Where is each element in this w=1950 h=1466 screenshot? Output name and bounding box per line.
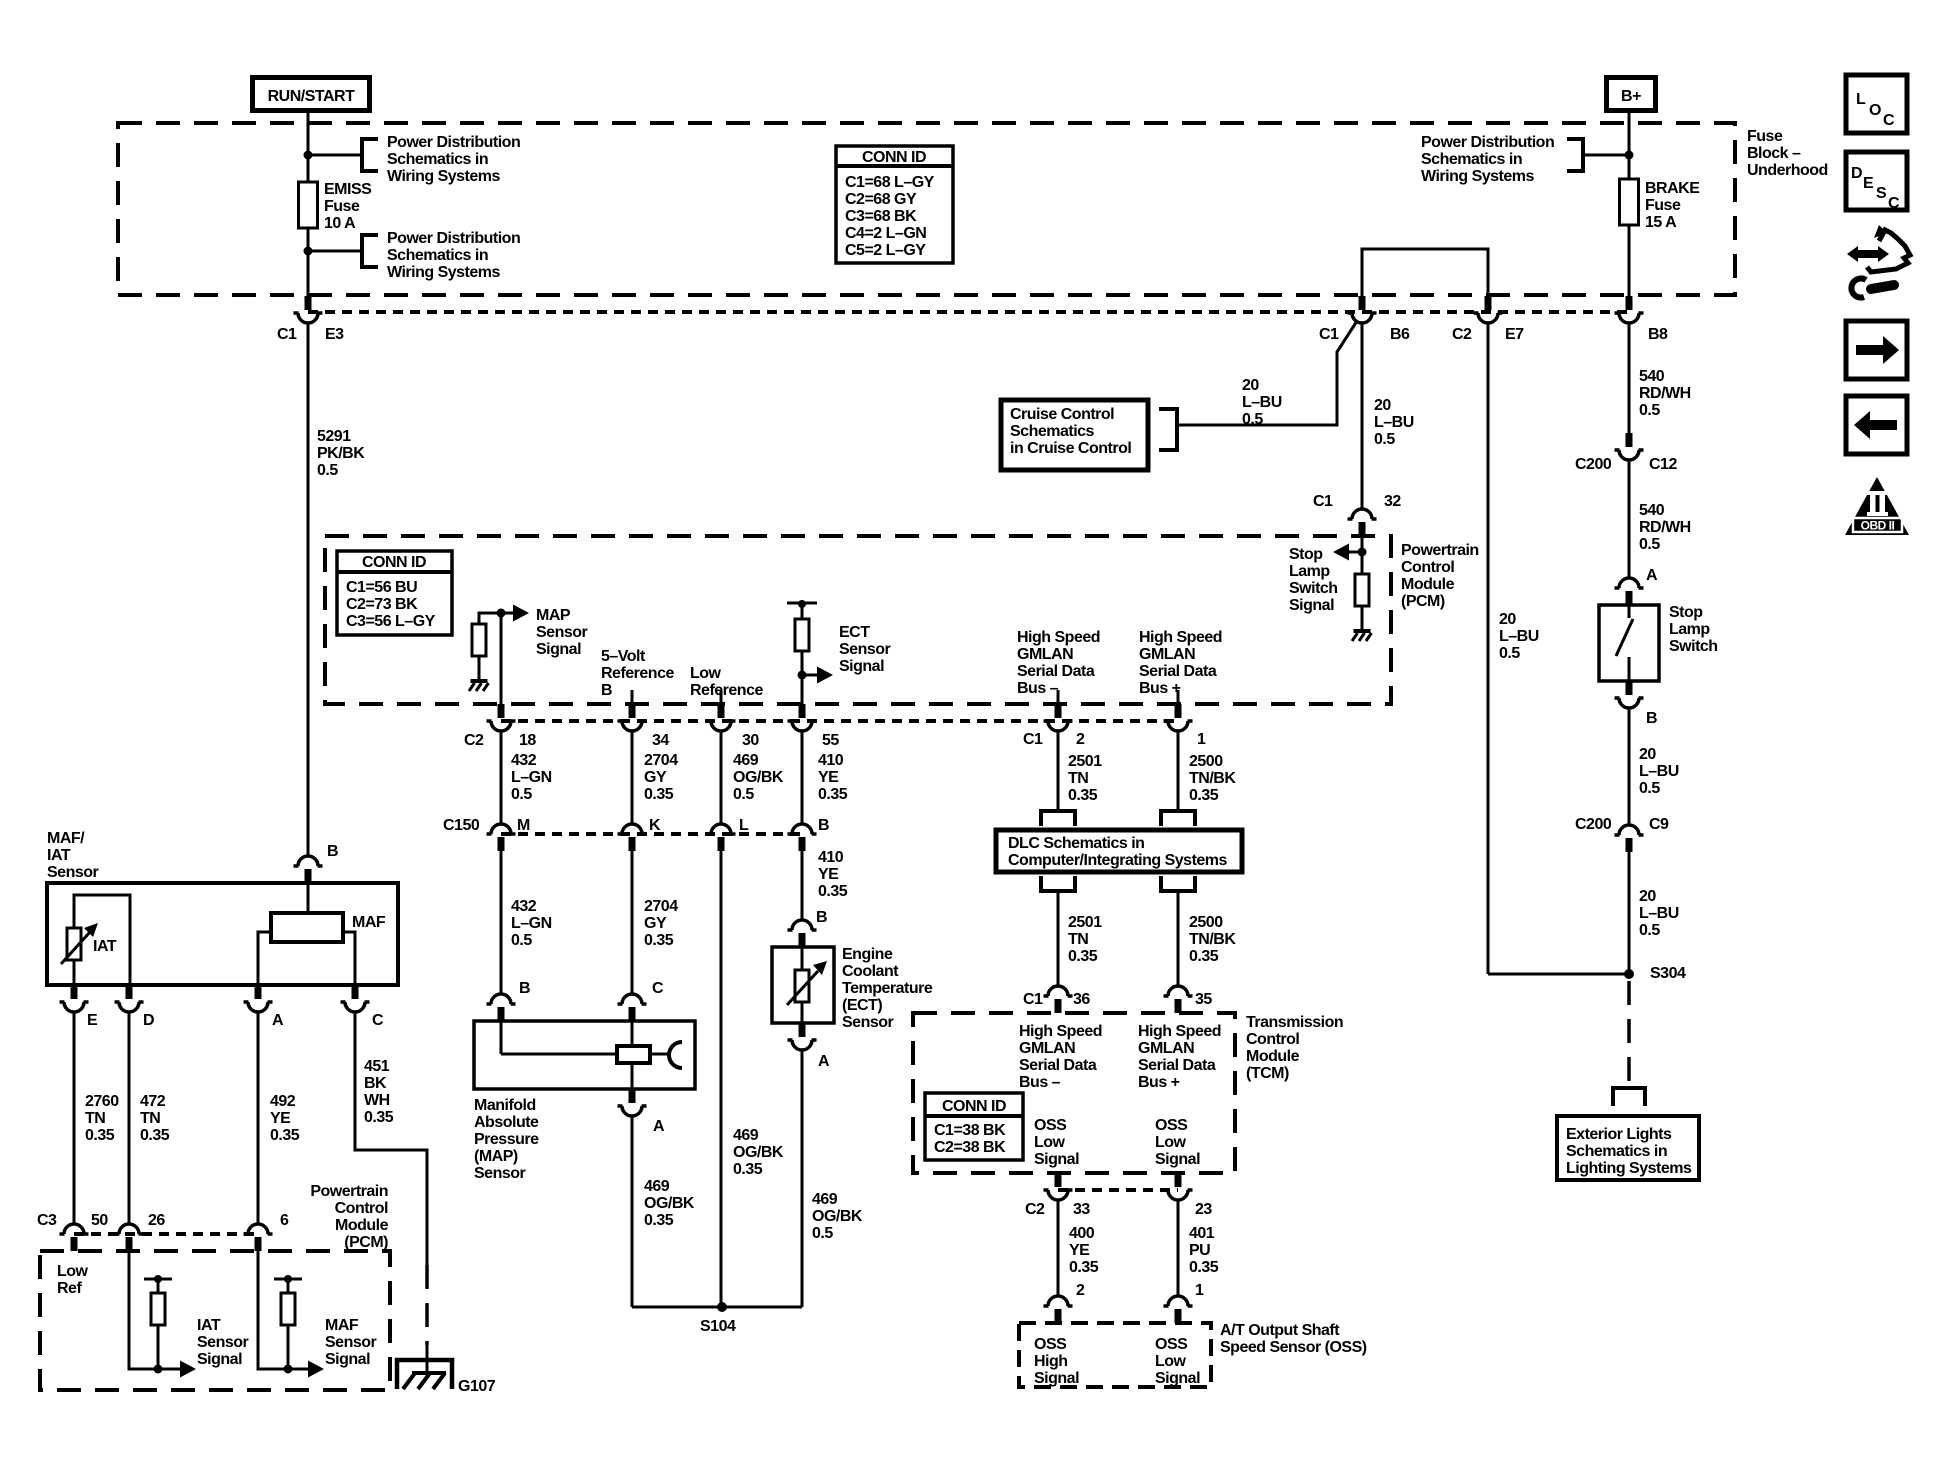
svg-text:OBD II: OBD II (1861, 519, 1895, 533)
wire 410 upper (801, 731, 804, 824)
svg-text:C3: C3 (37, 1212, 57, 1229)
svg-text:C2: C2 (1452, 326, 1472, 343)
MAP transducer arc (669, 1042, 682, 1068)
DLC schematics box (996, 830, 1242, 872)
svg-text:1: 1 (1197, 731, 1206, 748)
svg-text:S104: S104 (700, 1318, 736, 1335)
node junction BRAKE (1625, 151, 1634, 160)
svg-text:D: D (143, 1012, 154, 1029)
wire pin 26 to IAT signal node (129, 1251, 158, 1369)
svg-text:B6: B6 (1390, 326, 1410, 343)
connector B MAP (487, 994, 516, 1021)
wire RUN/START down through fuse block (307, 113, 310, 296)
svg-text:C: C (372, 1012, 384, 1029)
svg-text:C2: C2 (1025, 1201, 1045, 1218)
connector C2 33 (1044, 1173, 1073, 1200)
wire 2500 upper (1177, 731, 1180, 811)
wire 2704 upper (631, 731, 634, 824)
connector 2 OSS (1044, 1296, 1073, 1323)
svg-text:30: 30 (742, 732, 759, 749)
wire 432 upper (500, 731, 503, 824)
ECT sensor signal pullup (787, 602, 817, 605)
PCM center dashed box (325, 536, 1391, 704)
connector C3 50 (60, 1224, 89, 1251)
svg-text:O: O (1869, 102, 1881, 119)
fuse BRAKE 15 A (1620, 179, 1639, 225)
bracket DLC bottom left (1041, 876, 1075, 891)
svg-text:S: S (1876, 185, 1887, 202)
svg-text:C200: C200 (1575, 456, 1612, 473)
svg-text:C1: C1 (1023, 731, 1043, 748)
cruise control box (1001, 400, 1148, 470)
svg-text:E7: E7 (1505, 326, 1524, 343)
connector C1 B6 (1348, 296, 1377, 323)
ECT thermistor (801, 947, 804, 970)
connector 23 (1164, 1173, 1193, 1200)
svg-text:CONN ID: CONN ID (862, 149, 926, 166)
connector pin E (60, 985, 89, 1012)
connector A ECT (788, 1023, 817, 1050)
svg-text:S304: S304 (1650, 965, 1686, 982)
svg-text:C1: C1 (1319, 326, 1339, 343)
svg-text:G107: G107 (458, 1378, 496, 1395)
wire GMLAN minus stub PCM (1057, 690, 1060, 704)
wire branch to power distribution bracket 2 (308, 250, 362, 253)
svg-text:A: A (1646, 567, 1658, 584)
svg-text:C2: C2 (464, 732, 484, 749)
arrow MAP sensor signal (501, 612, 513, 615)
svg-text:B: B (816, 909, 827, 926)
wire 20 L-BU stop lamp to C200 (1628, 708, 1631, 825)
wire 540 RD/WH upper (1628, 323, 1631, 433)
TCM dashed box (913, 1013, 1235, 1173)
connector B MAF sensor (294, 856, 323, 883)
bracket power distribution 1 (362, 137, 378, 173)
svg-text:C12: C12 (1649, 456, 1677, 473)
connector B ECT (788, 920, 817, 947)
svg-text:M: M (517, 817, 530, 834)
ground G107 (397, 1360, 452, 1389)
terminal RUN/START (253, 78, 370, 111)
bracket DLC bottom right (1161, 876, 1195, 891)
dotted connector row line C3 (74, 1232, 258, 1236)
wire 5-volt reference pin 34 stub (631, 690, 634, 704)
bracket DLC top left (1041, 811, 1075, 826)
svg-text:C9: C9 (1649, 816, 1669, 833)
IAT sensor signal pullup (144, 1278, 172, 1281)
connector A MAP (618, 1089, 647, 1116)
wire 5291 PK/BK E3 to MAF sensor (307, 323, 310, 856)
wire E7 20 L-BU long (1487, 323, 1490, 974)
svg-text:CONN ID: CONN ID (942, 1098, 1006, 1115)
icon vehicle double arrow wrench (1847, 246, 1889, 262)
wire 410 lower (801, 851, 804, 920)
arrow ECT sensor signal (802, 674, 817, 677)
connector B C150 (788, 824, 817, 851)
dotted connector row line C2 TCM (1058, 1188, 1178, 1192)
MAP sensor signal pulldown resistor (479, 613, 501, 624)
dotted connector row line C150 (501, 832, 802, 836)
wire 432 lower (500, 851, 503, 994)
svg-text:B: B (327, 843, 338, 860)
wire pin 6 to MAF signal node (258, 1251, 288, 1369)
svg-text:50: 50 (91, 1212, 108, 1229)
dashed wire S304 to exterior lights (1627, 981, 1631, 1084)
MAF element legs (258, 932, 355, 985)
svg-text:C1=38 BKC2=38 BK: C1=38 BKC2=38 BK (934, 1122, 1006, 1156)
connector 55 (788, 704, 817, 731)
MAF/IAT sensor box (47, 883, 398, 985)
wire 492 YE (257, 1012, 260, 1224)
stop lamp switch box (1599, 605, 1659, 681)
bracket cruise control (1159, 407, 1177, 452)
OSS sensor dashed box (1019, 1323, 1211, 1387)
MAP sensor box (474, 1021, 695, 1089)
switch blade stop lamp (1616, 605, 1633, 681)
bracket exterior lights (1613, 1088, 1645, 1106)
connector 35 (1164, 986, 1193, 1013)
svg-text:55: 55 (822, 732, 839, 749)
dashed wire segment to G107 (425, 1265, 429, 1345)
svg-text:2: 2 (1076, 1282, 1085, 1299)
connector C200 C12 (1615, 433, 1644, 460)
connector pin A (244, 985, 273, 1012)
svg-text:B: B (818, 817, 829, 834)
wire 2500 lower (1177, 891, 1180, 986)
wire 400 YE (1057, 1200, 1060, 1296)
svg-text:C: C (652, 980, 664, 997)
svg-text:C1: C1 (277, 326, 297, 343)
icon LOC box (1846, 75, 1907, 133)
connector pin C (341, 985, 370, 1012)
MAF sensor signal pullup (274, 1278, 302, 1281)
svg-text:E3: E3 (325, 326, 344, 343)
connector 30 (707, 704, 736, 731)
wire cruise control branch (1178, 321, 1357, 425)
fuse EMISS 10 A (299, 182, 318, 228)
svg-text:35: 35 (1195, 991, 1212, 1008)
svg-text:K: K (649, 817, 661, 834)
node IAT signal junction (154, 1365, 163, 1374)
splice S304 (1624, 969, 1634, 979)
svg-text:18: 18 (519, 732, 536, 749)
arrow IAT sensor signal (158, 1368, 180, 1371)
connector 1 OSS (1164, 1296, 1193, 1323)
wire 451 BK/WH to G107 (355, 1012, 427, 1265)
icon arrow left box (1846, 396, 1907, 454)
svg-text:32: 32 (1384, 493, 1401, 510)
svg-text:E: E (1863, 175, 1874, 192)
connector C MAP (618, 994, 647, 1021)
conn id table TCM (925, 1093, 1023, 1160)
connector K (618, 824, 647, 851)
wire 540 RD/WH lower (1628, 460, 1631, 578)
connector 26 (115, 1224, 144, 1251)
wire B into MAF element (307, 883, 310, 913)
connector C2 E7 (1474, 296, 1503, 323)
stop lamp switch signal branch (1361, 536, 1364, 574)
bracket DLC top right (1161, 811, 1195, 826)
dotted connector row line C2/C1 (501, 719, 1178, 723)
MAF element box (271, 913, 343, 942)
connector C200 C9 (1615, 825, 1644, 852)
wire 2704 lower (631, 851, 634, 994)
terminal B+ (1607, 78, 1656, 111)
svg-text:6: 6 (280, 1212, 289, 1229)
IAT thermistor network (74, 895, 130, 985)
wire MAP signal to pin 18 (500, 613, 503, 704)
svg-text:C1: C1 (1023, 991, 1043, 1008)
connector C1 36 (1044, 986, 1073, 1013)
svg-text:C150: C150 (443, 817, 480, 834)
svg-text:26: 26 (148, 1212, 165, 1229)
svg-text:IAT: IAT (93, 938, 117, 955)
svg-text:B: B (519, 980, 530, 997)
svg-text:E: E (87, 1012, 98, 1029)
node ECT signal junction (798, 671, 807, 680)
connector C2 18 (487, 704, 516, 731)
connector 6 (244, 1224, 273, 1251)
svg-text:23: 23 (1195, 1201, 1212, 1218)
connector C150 M (487, 824, 516, 851)
svg-text:A: A (818, 1053, 830, 1070)
splice S104 (632, 1306, 802, 1309)
wire ECT A to S104 (801, 1050, 804, 1307)
svg-text:B: B (1646, 710, 1657, 727)
connector C1 2 (1044, 704, 1073, 731)
wire 469 low reference to S104 (720, 851, 723, 1307)
connector C1 32 (1348, 509, 1377, 536)
wire 20 L-BU to S304 (1628, 852, 1631, 974)
wire B6 down to PCM C1 32 (1361, 323, 1364, 509)
arrow MAF sensor signal (288, 1368, 308, 1371)
wire low reference pin 30 stub (720, 690, 723, 704)
icon DESC box (1846, 152, 1907, 210)
svg-text:L: L (1856, 91, 1866, 108)
wire 2501 upper (1057, 731, 1060, 811)
connector C1 E3 (294, 296, 323, 323)
svg-text:36: 36 (1073, 991, 1090, 1008)
fuse block underhood dashed box (118, 123, 1735, 295)
connector L (707, 824, 736, 851)
wire branch to power distribution bracket 3 (1583, 154, 1629, 157)
ground stop lamp internal (1352, 631, 1372, 641)
wire 469 upper (720, 731, 723, 824)
wire 2760 TN (73, 1012, 76, 1224)
svg-text:C: C (1888, 195, 1900, 212)
svg-text:2: 2 (1076, 731, 1085, 748)
exterior lights box (1557, 1116, 1699, 1180)
svg-text:C: C (1883, 112, 1895, 129)
ground MAP internal (469, 681, 489, 691)
svg-text:1: 1 (1195, 1282, 1204, 1299)
wire 472 TN (128, 1012, 131, 1224)
svg-text:CONN ID: CONN ID (362, 554, 426, 571)
conn id table top (836, 146, 953, 263)
wire B+ down through fuse block (1628, 113, 1631, 296)
IAT variable arrow (61, 932, 90, 964)
icon arrow right box (1846, 321, 1907, 379)
svg-text:A: A (653, 1118, 665, 1135)
resistor stop lamp signal (1355, 574, 1369, 606)
svg-text:C1: C1 (1313, 493, 1333, 510)
PCM lower dashed box (40, 1251, 390, 1390)
icon OBD II triangle (1845, 477, 1909, 535)
node junction lower EMISS (304, 247, 313, 256)
connector B8 (1615, 296, 1644, 323)
bracket power distribution 3 (1567, 137, 1583, 173)
wire 2501 lower (1057, 891, 1060, 986)
connector 34 (618, 704, 647, 731)
wire 401 PU (1177, 1200, 1180, 1296)
connector 1 (1164, 704, 1193, 731)
svg-text:RUN/START: RUN/START (268, 88, 355, 105)
ECT sensor box (772, 947, 834, 1023)
bracket power distribution 2 (362, 233, 378, 269)
conn id table PCM (337, 551, 452, 635)
connector B stop lamp switch (1615, 681, 1644, 708)
svg-text:C200: C200 (1575, 816, 1612, 833)
connector A stop lamp switch (1615, 578, 1644, 605)
svg-text:L: L (739, 817, 749, 834)
wire GMLAN plus stub PCM (1177, 690, 1180, 704)
wire loop B6 to E7 inside fuse block (1362, 249, 1488, 296)
wire branch to power distribution bracket 1 (308, 154, 362, 157)
dotted connector row line C1 (308, 310, 1629, 314)
node MAP signal junction (497, 609, 506, 618)
svg-text:B8: B8 (1648, 326, 1668, 343)
MAP internal network (500, 1021, 503, 1054)
svg-text:MAF: MAF (352, 914, 386, 931)
svg-text:A: A (272, 1012, 284, 1029)
connector pin D (115, 985, 144, 1012)
svg-text:B+: B+ (1621, 88, 1641, 105)
svg-text:D: D (1851, 165, 1862, 182)
svg-text:34: 34 (652, 732, 669, 749)
node MAF signal junction (284, 1365, 293, 1374)
svg-text:33: 33 (1073, 1201, 1090, 1218)
wire MAP A to S104 (631, 1116, 634, 1307)
node junction upper EMISS (304, 151, 313, 160)
